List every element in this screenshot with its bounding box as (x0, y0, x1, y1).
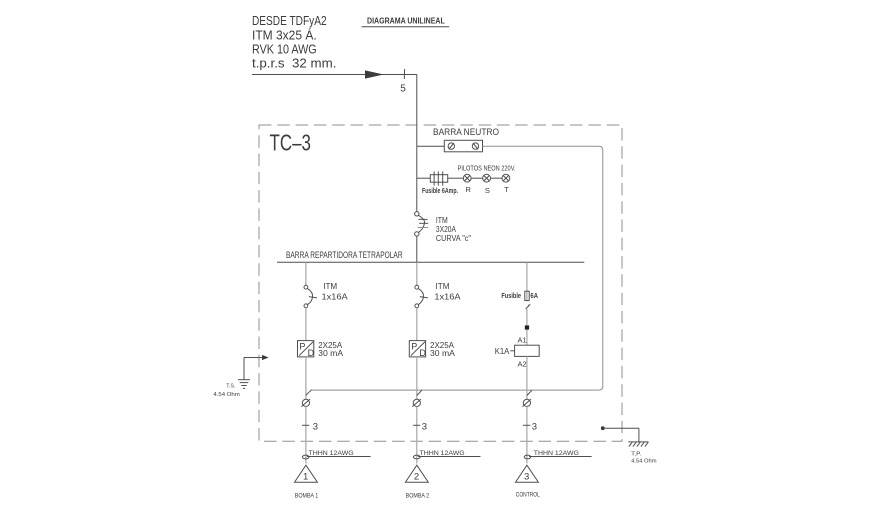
svg-text:P: P (411, 342, 417, 352)
wire branch 1 drop (305, 262, 307, 285)
RCD U1 P/D 2X25A 30mA (298, 340, 344, 358)
svg-text:D: D (308, 348, 315, 358)
disconnect blade (526, 305, 531, 309)
conductor tick 3 branch1 (302, 422, 318, 433)
wire (416, 236, 418, 262)
svg-text:3: 3 (422, 422, 427, 433)
svg-text:3: 3 (524, 472, 529, 483)
wire branch 2 drop (416, 262, 418, 285)
svg-text:1x16A: 1x16A (434, 291, 461, 301)
svg-text:30 mA: 30 mA (430, 348, 455, 358)
wire (491, 177, 503, 179)
wire (416, 357, 418, 400)
connector ellipse branch2 (414, 455, 421, 459)
svg-text:P: P (299, 342, 305, 352)
cable label THHN 12AWG branch3 (529, 450, 592, 457)
svg-text:BOMBA 1: BOMBA 1 (295, 493, 319, 500)
terminal branch3 (523, 399, 532, 407)
relay coil K1A (495, 345, 539, 356)
neutral tap branch3 (527, 390, 532, 395)
svg-text:CURVA "c": CURVA "c" (436, 233, 471, 243)
wire (448, 177, 464, 179)
wire (416, 308, 418, 341)
label ITM 1x16A branch1 (322, 281, 349, 301)
svg-text:6A: 6A (530, 293, 538, 300)
wire (526, 309, 528, 345)
svg-text:ITM 3x25 Á.: ITM 3x25 Á. (252, 27, 317, 42)
busbar BARRA REPARTIDORA TETRAPOLAR (277, 250, 584, 262)
neutral tap branch2 (417, 390, 422, 395)
svg-text:T.S.: T.S. (226, 384, 235, 390)
svg-text:BOMBA 2: BOMBA 2 (406, 493, 430, 500)
svg-text:TC–3: TC–3 (270, 130, 311, 156)
title DIAGRAMA UNILINEAL (362, 16, 450, 27)
svg-text:1x16A: 1x16A (322, 291, 349, 301)
label ITM 3X20A CURVA "c" (436, 215, 471, 243)
conductor count tick 5 (400, 69, 406, 95)
wire pilots tap (417, 177, 431, 179)
svg-text:ITM: ITM (436, 281, 450, 291)
wire (305, 308, 307, 341)
svg-text:3: 3 (532, 422, 537, 433)
svg-text:S: S (485, 186, 490, 195)
svg-text:1: 1 (303, 472, 308, 483)
wire (305, 357, 307, 400)
junction node (525, 325, 529, 329)
wire (526, 356, 528, 399)
svg-text:Fusible 6Amp.: Fusible 6Amp. (422, 188, 458, 195)
svg-text:A2: A2 (518, 360, 527, 369)
svg-text:BARRA NEUTRO: BARRA NEUTRO (433, 127, 499, 138)
enclosure TC-3 dashed (259, 125, 622, 441)
cable label THHN 12AWG branch2 (418, 450, 481, 457)
breaker Q2 ITM 1x16A (304, 285, 317, 307)
svg-text:D: D (419, 348, 426, 358)
label ITM 1x16A branch2 (434, 281, 461, 301)
svg-text:RVK 10 AWG: RVK 10 AWG (252, 41, 317, 56)
wire neutral tap (417, 145, 445, 147)
cable label THHN 12AWG branch1 (307, 450, 371, 457)
svg-text:4.54 Ohm: 4.54 Ohm (631, 459, 657, 465)
wire (416, 407, 418, 464)
RCD U2 P/D 2X25A 30mA (409, 340, 455, 358)
breaker Q3 ITM 1x16A (415, 285, 428, 307)
wire (305, 407, 307, 464)
svg-text:T.P.: T.P. (631, 452, 642, 458)
svg-text:3: 3 (313, 422, 318, 433)
fuse F1 Fusible 6Amp (422, 171, 458, 195)
motor M2 BOMBA 2 (405, 465, 429, 500)
wire (471, 177, 483, 179)
connector ellipse branch3 (524, 455, 531, 459)
neutral bar terminals (444, 140, 482, 152)
terminal branch2 (412, 399, 421, 407)
svg-text:BARRA REPARTIDORA TETRAPOLAR: BARRA REPARTIDORA TETRAPOLAR (286, 250, 403, 260)
svg-text:4.54 Ohm: 4.54 Ohm (213, 392, 239, 398)
svg-text:DESDE TDFyA2: DESDE TDFyA2 (252, 13, 327, 28)
svg-text:30 mA: 30 mA (318, 348, 343, 358)
svg-text:5: 5 (400, 84, 406, 95)
wire branch 3 drop (526, 262, 528, 300)
svg-text:PILOTOS NEON 220V.: PILOTOS NEON 220V. (458, 166, 516, 173)
svg-text:R: R (466, 185, 472, 194)
svg-text:DIAGRAMA UNILINEAL: DIAGRAMA UNILINEAL (367, 16, 445, 26)
conductor tick 3 branch3 (523, 422, 537, 433)
neutral tap branch1 (306, 390, 312, 396)
arrow feeder (365, 70, 384, 78)
wire (526, 407, 528, 464)
motor M3 CONTROL (516, 465, 540, 499)
svg-text:ITM: ITM (323, 281, 337, 291)
svg-text:T: T (504, 185, 509, 194)
svg-text:CONTROL: CONTROL (516, 492, 540, 499)
lamp R (463, 174, 471, 194)
wire feeder horizontal (252, 74, 417, 76)
feeder label DESDE TDFyA2 (252, 13, 336, 71)
svg-text:K1A: K1A (495, 347, 510, 356)
ground T.P. (601, 426, 657, 464)
lamp T (502, 174, 510, 194)
connector ellipse branch1 (302, 455, 309, 459)
conductor tick 3 branch2 (413, 422, 427, 433)
svg-text:A1: A1 (518, 336, 527, 345)
svg-text:Fusible: Fusible (501, 293, 521, 300)
terminal branch1 (302, 399, 311, 407)
ground T.S. (213, 355, 268, 398)
svg-text:2: 2 (414, 472, 419, 483)
breaker Q1 ITM 3X20A (415, 212, 429, 236)
wire neutral return path (311, 146, 602, 390)
svg-text:t.p.r.s 32 mm.: t.p.r.s 32 mm. (252, 55, 336, 70)
motor M1 BOMBA 1 (295, 465, 319, 500)
wire main bus vertical (416, 75, 418, 212)
lamp S (483, 174, 491, 195)
fuse F2 6A (501, 291, 538, 300)
